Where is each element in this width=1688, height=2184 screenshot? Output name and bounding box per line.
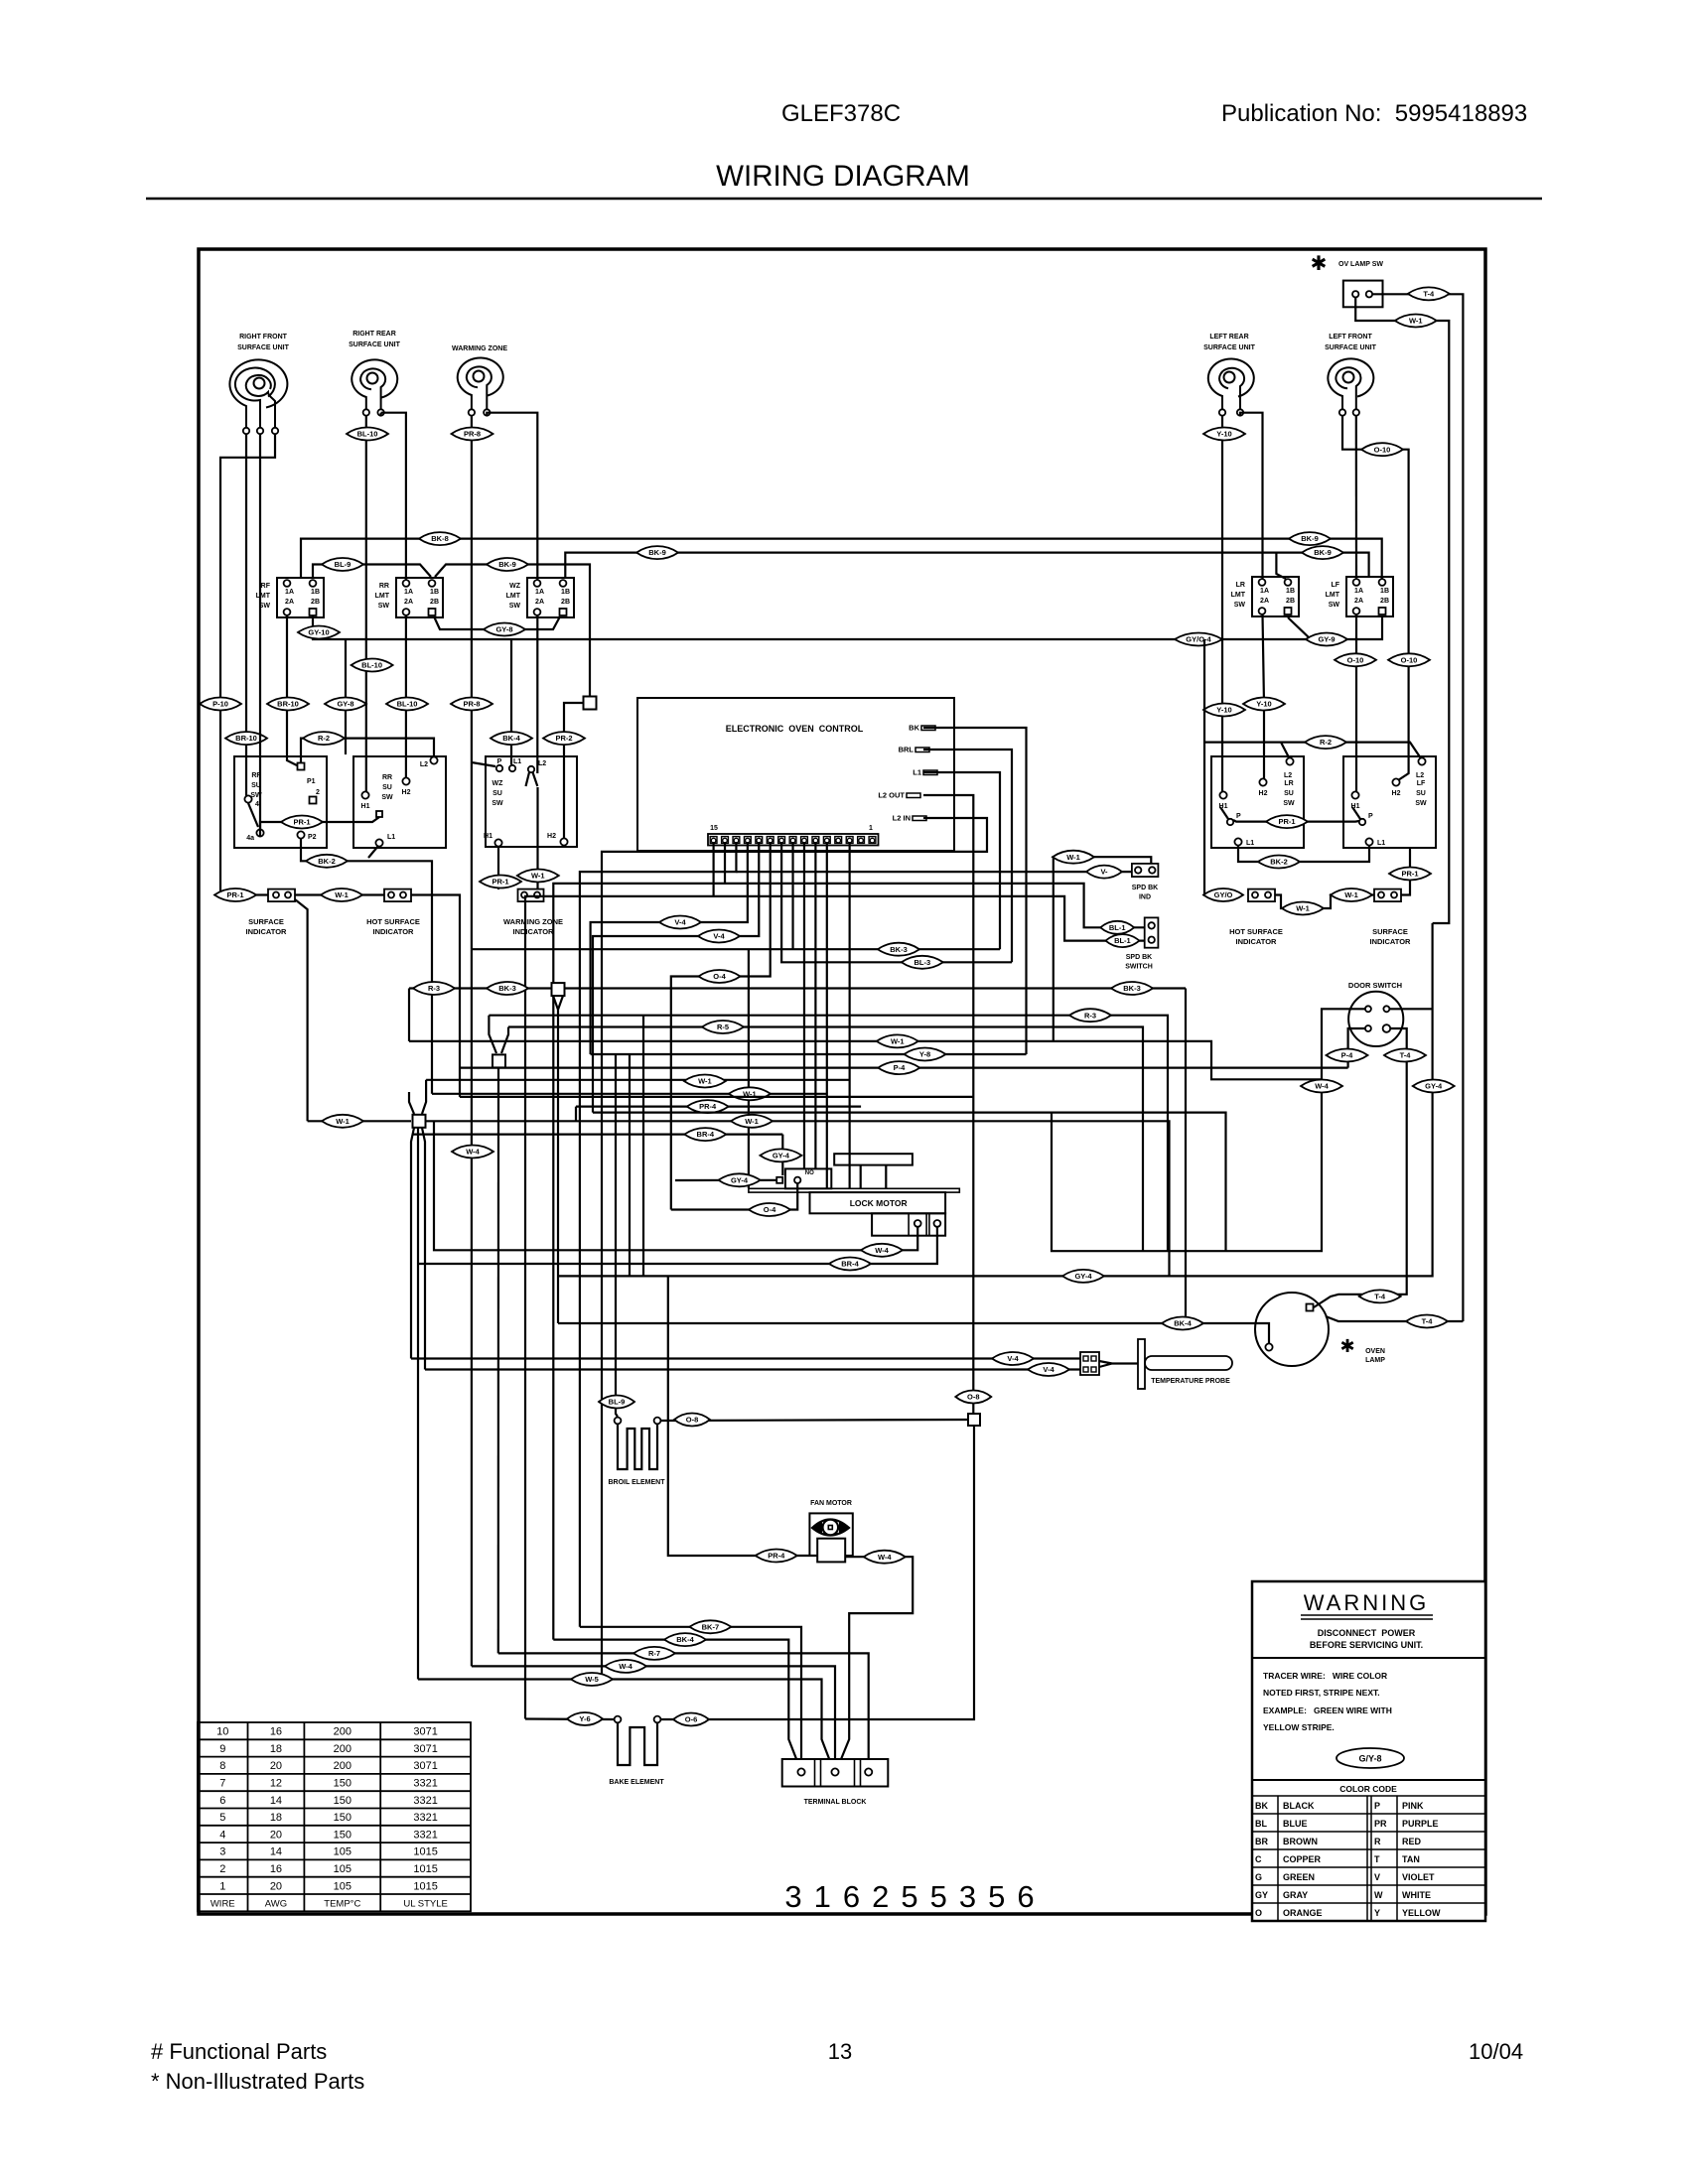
svg-text:BK-9: BK-9	[648, 548, 666, 557]
svg-text:HOT SURFACE: HOT SURFACE	[366, 917, 420, 926]
svg-text:BK-4: BK-4	[1174, 1319, 1192, 1328]
svg-text:W-4: W-4	[1315, 1082, 1329, 1091]
svg-text:GY-4: GY-4	[773, 1152, 790, 1160]
wire label BK-4 c	[1162, 1317, 1203, 1330]
svg-text:EXAMPLE: GREEN WIRE WITH: EXAMPLE: GREEN WIRE WITH	[1263, 1706, 1392, 1715]
wire V-1 to SPD BK IND	[736, 871, 1132, 873]
svg-text:2B: 2B	[1380, 598, 1389, 605]
wire label R-2 a	[303, 732, 345, 745]
svg-text:2A: 2A	[535, 599, 544, 606]
svg-text:1B: 1B	[1286, 588, 1295, 595]
wire trunk PR-1 right	[1233, 820, 1359, 822]
terminal LF H1	[1351, 791, 1358, 798]
svg-text:1A: 1A	[285, 589, 294, 596]
terminal RF LMT SW 2B	[310, 609, 317, 615]
svg-text:GY-10: GY-10	[308, 628, 329, 637]
wire label BK-9 c	[1289, 532, 1331, 545]
junction junction C	[492, 1054, 505, 1067]
wire EOC t7 fan	[803, 842, 805, 1168]
wire cam stem	[861, 1165, 887, 1189]
limit switch WZ LMT SW	[527, 578, 574, 617]
terminal door pin TL	[1365, 1006, 1371, 1012]
terminal NO contact square	[776, 1177, 782, 1183]
wire EOC L2 OUT wire	[923, 795, 973, 1414]
svg-text:L1: L1	[1377, 840, 1385, 847]
svg-text:BK-3: BK-3	[890, 945, 908, 954]
wire trunk BK-4 lamp	[558, 1323, 1269, 1343]
svg-text:LF: LF	[1417, 780, 1426, 787]
svg-text:NOTED FIRST, STRIPE NEXT.: NOTED FIRST, STRIPE NEXT.	[1263, 1688, 1380, 1698]
wire label GY-4 c	[1413, 1080, 1455, 1093]
svg-text:PR-1: PR-1	[1278, 817, 1295, 826]
wire label GY-10	[298, 626, 340, 639]
svg-text:1B: 1B	[561, 589, 570, 596]
svg-text:W-1: W-1	[1409, 317, 1423, 326]
wire R-5 into junction C	[501, 1027, 508, 1054]
svg-text:Y-10: Y-10	[1216, 430, 1231, 439]
svg-text:SW: SW	[1329, 602, 1340, 609]
wire trunk V-4 probe a	[411, 1357, 1080, 1359]
terminal oven lamp terminal b	[1265, 1343, 1272, 1350]
svg-text:BK-9: BK-9	[1314, 548, 1332, 557]
svg-text:4: 4	[255, 801, 259, 808]
wire LR coil left lead to H1	[1221, 415, 1223, 791]
terminal WZ L1	[509, 765, 515, 771]
svg-text:BR-10: BR-10	[277, 700, 299, 709]
terminal contact 4a	[256, 829, 263, 836]
wire label W-1 c	[517, 870, 559, 883]
wire LF coil right lead to LF 1A	[1355, 415, 1357, 579]
terminal conn2 pin2	[400, 892, 406, 898]
wire label BL-1 a	[1100, 921, 1134, 934]
wire label T-4 b	[1384, 1049, 1426, 1062]
terminal WZ LMT SW 1B	[560, 580, 567, 587]
svg-text:O-10: O-10	[1401, 655, 1418, 664]
svg-text:WARNING: WARNING	[1304, 1590, 1430, 1615]
svg-text:L2 IN: L2 IN	[893, 814, 911, 823]
header rule	[146, 198, 1542, 201]
terminal spdbkind pin2	[1149, 867, 1155, 873]
wire label R-3 a	[413, 982, 455, 995]
limit switch RF LMT SW	[277, 578, 324, 617]
wire EOC t3 fan	[849, 842, 851, 1188]
wire trunk BR-4 lock	[418, 1227, 937, 1264]
svg-text:200: 200	[334, 1726, 352, 1738]
svg-text:O-4: O-4	[713, 972, 726, 981]
wire label T-4 d	[1406, 1315, 1448, 1328]
svg-text:WIRING DIAGRAM: WIRING DIAGRAM	[716, 160, 970, 193]
wire trunk W-1 h	[426, 1079, 850, 1081]
wire WZ coil left lead down	[472, 415, 495, 949]
svg-text:18: 18	[270, 1743, 282, 1755]
wire label T-4 a	[1408, 287, 1450, 300]
svg-text:BL-10: BL-10	[361, 661, 382, 670]
wire trunk mid 1105	[460, 1096, 973, 1098]
svg-text:W-1: W-1	[745, 1117, 759, 1126]
terminal RR H1	[361, 791, 368, 798]
wire label BL-10 b	[352, 659, 393, 672]
terminal RR LMT SW 1A	[403, 580, 410, 587]
terminal WARMING ZONE terminal 1	[469, 409, 475, 415]
terminal broil terminal L	[615, 1418, 622, 1425]
svg-text:200: 200	[334, 1760, 352, 1772]
lock motor cam bar	[834, 1154, 913, 1164]
wire vertical GY/O-4 to indicator	[1204, 639, 1212, 895]
wire door BL wire	[1348, 1028, 1365, 1068]
svg-text:H2: H2	[547, 833, 556, 840]
terminal RR LMT SW 2B	[429, 609, 436, 615]
svg-text:SURFACE UNIT: SURFACE UNIT	[1203, 344, 1255, 351]
limit switch LR LMT SW	[1252, 577, 1299, 616]
svg-text:V-4: V-4	[713, 932, 725, 941]
terminal terminal block pin 2	[831, 1768, 838, 1775]
junction junction D	[413, 1115, 426, 1128]
svg-text:LMT: LMT	[256, 593, 271, 600]
svg-text:7: 7	[219, 1778, 225, 1790]
wire trunk BK-4 tb	[553, 1640, 800, 1769]
svg-text:AWG: AWG	[265, 1899, 287, 1910]
wire label W-1 g	[877, 1034, 918, 1047]
svg-text:PR-1: PR-1	[492, 878, 508, 887]
connector surface indicator right	[1374, 889, 1401, 902]
svg-text:PINK: PINK	[1402, 1801, 1424, 1811]
wire label O-8 a	[955, 1391, 991, 1404]
svg-text:SURFACE: SURFACE	[248, 917, 284, 926]
svg-text:W-4: W-4	[878, 1553, 892, 1562]
wire bundle v474 to W-4 trunk	[471, 949, 473, 1666]
wire trunk R-2 left	[301, 739, 434, 762]
svg-text:W-1: W-1	[698, 1077, 712, 1086]
svg-text:SU: SU	[1416, 790, 1426, 797]
warning box	[1252, 1581, 1485, 1921]
svg-text:SW: SW	[1234, 602, 1246, 609]
wire junction B drop	[553, 996, 563, 1323]
connector hot surface indicator right	[1248, 889, 1275, 902]
terminal terminal block pin 3	[865, 1768, 872, 1775]
terminal LEFT FRONT terminal 2	[1353, 409, 1359, 415]
wire door TR wire	[558, 923, 1433, 1276]
terminal block	[782, 1759, 889, 1787]
wire label GY-8 a	[484, 623, 525, 636]
svg-text:2A: 2A	[404, 599, 413, 606]
wire label O-4 b	[749, 1203, 790, 1216]
terminal RR LMT SW 1B	[429, 580, 436, 587]
svg-text:1: 1	[869, 825, 873, 832]
wire label PR-8 b	[451, 698, 492, 711]
svg-text:W-1: W-1	[336, 1117, 350, 1126]
wire label P-4 b	[1327, 1049, 1368, 1062]
svg-text:L2: L2	[1416, 772, 1424, 779]
svg-text:2B: 2B	[561, 599, 570, 606]
wire label GY-4 d	[1062, 1270, 1104, 1283]
svg-text:16: 16	[270, 1726, 282, 1738]
terminal terminal 2	[310, 797, 317, 804]
lock motor NO contact	[785, 1168, 831, 1188]
svg-text:* Non-Illustrated Parts: * Non-Illustrated Parts	[151, 2069, 364, 2094]
SPD BK IND connector	[1132, 864, 1159, 877]
svg-text:INDICATOR: INDICATOR	[1236, 937, 1278, 946]
svg-text:OV LAMP SW: OV LAMP SW	[1338, 261, 1383, 268]
wire PR-1 into connector	[220, 893, 268, 895]
svg-text:INDICATOR: INDICATOR	[373, 927, 415, 936]
svg-text:105: 105	[334, 1880, 352, 1892]
wire label BK-4 a	[491, 732, 532, 745]
wire label GY-9	[1306, 633, 1347, 646]
wire label BK-2 b	[1258, 856, 1300, 869]
wire label P-4 a	[878, 1061, 919, 1074]
wire label GY-8 b	[325, 698, 366, 711]
terminal P2	[297, 831, 304, 838]
wire trunk BR-4 mid	[413, 1135, 783, 1175]
surface unit coil WARMING ZONE	[458, 357, 503, 410]
indicator RF SU SW box	[234, 756, 327, 848]
wire label PR-2	[543, 732, 585, 745]
svg-text:PR-8: PR-8	[464, 430, 481, 439]
indicator RR SU SW box (hot surface)	[353, 756, 446, 848]
svg-text:W-1: W-1	[1066, 853, 1080, 862]
terminal LR LMT SW 2B	[1285, 608, 1292, 614]
terminal broil terminal R	[654, 1418, 661, 1425]
wire RF 2A to P1	[287, 615, 297, 765]
wire trunk Y-8	[591, 1053, 1027, 1055]
svg-text:BR: BR	[1255, 1837, 1268, 1846]
wire W-1 riser to WZ L2	[536, 787, 538, 889]
terminal contact 4	[244, 795, 251, 802]
svg-text:150: 150	[334, 1795, 352, 1807]
svg-text:BLUE: BLUE	[1283, 1819, 1308, 1829]
wire label V-4 a	[659, 916, 701, 929]
wire label BL-10 c	[386, 698, 428, 711]
terminal terminal block pin 1	[797, 1768, 804, 1775]
svg-text:1B: 1B	[430, 589, 439, 596]
svg-text:PR-2: PR-2	[555, 734, 572, 743]
svg-text:SPD BK: SPD BK	[1126, 954, 1152, 961]
svg-text:H1: H1	[484, 833, 492, 840]
svg-text:✱: ✱	[1311, 253, 1328, 275]
terminal RR LMT SW 2A	[403, 609, 410, 615]
svg-text:LEFT FRONT: LEFT FRONT	[1329, 334, 1372, 341]
wire bake left wire	[525, 1717, 614, 1720]
wire trunk PR-1 left	[260, 817, 379, 837]
svg-text:RF: RF	[251, 772, 261, 779]
wire label BL-3	[902, 956, 943, 969]
svg-text:INDICATOR: INDICATOR	[1370, 937, 1412, 946]
svg-text:BLACK: BLACK	[1283, 1801, 1315, 1811]
terminal RF terminal 1	[243, 428, 249, 434]
svg-text:LEFT REAR: LEFT REAR	[1209, 334, 1248, 341]
wire label W-4 e	[605, 1660, 646, 1673]
svg-text:LMT: LMT	[1326, 592, 1340, 599]
wire RF SU SW arm	[248, 803, 258, 827]
svg-text:RR: RR	[382, 774, 392, 781]
svg-text:P: P	[497, 758, 502, 765]
svg-text:Y-10: Y-10	[1256, 700, 1271, 709]
wire junction A to WZ H2	[564, 703, 583, 838]
wire trunk GY-4 to NO	[675, 1179, 776, 1181]
terminal oven lamp terminal a	[1307, 1304, 1314, 1311]
svg-text:2B: 2B	[1286, 598, 1295, 605]
wire junction D diagonals	[409, 1080, 426, 1680]
svg-text:BK: BK	[1255, 1801, 1268, 1811]
svg-text:PURPLE: PURPLE	[1402, 1819, 1439, 1829]
svg-text:V-4: V-4	[674, 918, 686, 927]
wire label BK-7	[689, 1620, 731, 1633]
svg-text:L1: L1	[513, 758, 521, 765]
wire R-3b into junction C	[489, 1016, 496, 1053]
wire label BK-3 c	[878, 943, 919, 956]
svg-text:WZ: WZ	[492, 780, 504, 787]
wire WZ coil right lead to WZ 1A	[487, 413, 537, 580]
svg-text:Y-10: Y-10	[1216, 706, 1231, 715]
svg-text:2B: 2B	[311, 599, 320, 606]
terminal WZ LMT SW 2A	[534, 609, 541, 615]
svg-text:GY: GY	[1255, 1890, 1268, 1900]
wire label BK-3 a	[487, 982, 528, 995]
svg-text:NO: NO	[805, 1170, 814, 1176]
terminal LR LMT SW 2A	[1259, 608, 1266, 614]
EOC terminal 6	[812, 837, 819, 844]
svg-text:1B: 1B	[311, 589, 320, 596]
wire WZ 2A drop	[536, 615, 538, 773]
svg-text:W-5: W-5	[585, 1675, 599, 1684]
surface unit coil RIGHT FRONT	[229, 359, 287, 429]
svg-text:2A: 2A	[1260, 598, 1269, 605]
svg-text:1015: 1015	[413, 1880, 437, 1892]
svg-text:WZ: WZ	[509, 583, 521, 590]
svg-text:SU: SU	[382, 784, 392, 791]
svg-text:GY-4: GY-4	[731, 1175, 749, 1184]
wire trunk BK-8	[301, 539, 1382, 579]
wire trunk BK-9	[565, 553, 1368, 579]
wire label BR-10 b	[225, 732, 267, 745]
svg-text:12: 12	[270, 1778, 282, 1790]
terminal LF H2	[1392, 778, 1399, 785]
svg-text:WHITE: WHITE	[1402, 1890, 1431, 1900]
svg-text:SW: SW	[492, 800, 503, 807]
limit switch LF LMT SW	[1346, 577, 1393, 616]
svg-text:R-2: R-2	[318, 734, 330, 743]
wire conn5 to PR-1 riser	[1401, 848, 1410, 895]
svg-text:G/Y-8: G/Y-8	[1358, 1754, 1381, 1764]
wire trunk W-1 to door TL	[409, 989, 1322, 1080]
terminal RF terminal 2	[257, 428, 263, 434]
wire link RR 2B to WZ 2B GY-8	[434, 616, 560, 629]
svg-text:3071: 3071	[413, 1743, 437, 1755]
wire label BR-4 b	[829, 1258, 871, 1271]
terminal LEFT REAR terminal 2	[1237, 409, 1243, 415]
svg-text:W-4: W-4	[466, 1148, 480, 1157]
svg-text:3321: 3321	[413, 1812, 437, 1824]
main border	[199, 249, 1485, 1914]
terminal LF LMT SW 1A	[1353, 579, 1360, 586]
connector surface indicator	[268, 889, 295, 902]
svg-text:4: 4	[219, 1829, 225, 1841]
SPD BK SWITCH connector	[1145, 917, 1159, 947]
wire label V-1	[1086, 866, 1122, 879]
wire label PR-8 a	[452, 428, 493, 441]
terminal LR LMT SW 1A	[1259, 579, 1266, 586]
wire label GY/O-4	[1175, 633, 1222, 646]
terminal OV LAMP SW pin 1	[1352, 291, 1358, 297]
svg-text:UL STYLE: UL STYLE	[403, 1899, 448, 1910]
svg-text:BL-1: BL-1	[1109, 923, 1126, 932]
wire label BK-8	[419, 532, 461, 545]
svg-text:GREEN: GREEN	[1283, 1872, 1315, 1882]
terminal LR P	[1227, 819, 1233, 825]
wire RR 2A to H2	[405, 615, 407, 777]
wire label V-4 c	[992, 1352, 1034, 1365]
wire junction C drop	[497, 1068, 499, 1653]
svg-text:BK-8: BK-8	[431, 534, 449, 543]
wire label PR-4 b	[756, 1550, 797, 1563]
wire label W-1 h	[684, 1075, 726, 1088]
svg-text:W-1: W-1	[1296, 904, 1310, 913]
svg-text:20: 20	[270, 1760, 282, 1772]
surface unit coil LEFT FRONT	[1328, 358, 1373, 410]
wire connector diag down	[295, 899, 308, 1121]
svg-text:150: 150	[334, 1778, 352, 1790]
EOC terminal 7	[801, 837, 808, 844]
EOC terminal 10	[767, 837, 774, 844]
wire EOC t5 fan	[826, 842, 828, 1188]
svg-text:GLEF378C: GLEF378C	[781, 100, 901, 127]
wire label W-4 a	[861, 1244, 903, 1257]
svg-text:1B: 1B	[1380, 588, 1389, 595]
svg-text:PR-1: PR-1	[1401, 870, 1418, 879]
wire label W-1 j	[322, 1115, 363, 1128]
svg-text:Y-6: Y-6	[579, 1714, 590, 1723]
wire OV LAMP SW to T-4	[1372, 294, 1463, 1321]
terminal LF LMT SW 2A	[1353, 608, 1360, 614]
terminal LF P	[1359, 819, 1365, 825]
svg-text:3321: 3321	[413, 1795, 437, 1807]
svg-text:2A: 2A	[285, 599, 294, 606]
wire label BK-9 a	[636, 546, 678, 559]
wire trunk BK-2 left	[301, 839, 432, 1094]
svg-text:5: 5	[219, 1812, 225, 1824]
svg-text:COPPER: COPPER	[1283, 1854, 1322, 1864]
svg-text:2: 2	[316, 789, 320, 796]
svg-text:RR: RR	[379, 583, 389, 590]
svg-text:FAN MOTOR: FAN MOTOR	[810, 1500, 852, 1507]
wire label O-10 a	[1361, 443, 1403, 456]
wire label W-1 e	[1282, 902, 1324, 915]
svg-text:316255356: 316255356	[784, 1879, 1046, 1914]
wire trunk PR-4 fan	[668, 1276, 817, 1556]
wire bundle vertical x634	[629, 1054, 631, 1276]
svg-text:L2: L2	[1284, 772, 1292, 779]
svg-text:T-4: T-4	[1422, 1317, 1434, 1326]
wire label BR-4 a	[684, 1128, 726, 1141]
svg-text:R-2: R-2	[1320, 738, 1332, 747]
svg-text:8: 8	[219, 1760, 225, 1772]
wire label PR-1 a	[281, 816, 323, 829]
wire label W-4 d	[864, 1551, 906, 1564]
wire label W-1 k	[731, 1115, 773, 1128]
svg-text:1015: 1015	[413, 1846, 437, 1858]
wire label PR-4 a	[687, 1100, 729, 1113]
electronic oven control box	[637, 698, 954, 851]
terminal door pin BR	[1383, 1024, 1391, 1032]
svg-text:1A: 1A	[404, 589, 413, 596]
EOC terminal strip	[708, 834, 879, 846]
svg-text:BK-9: BK-9	[498, 560, 516, 569]
wire label BK-9 b	[487, 558, 528, 571]
terminal WZ LMT SW 1A	[534, 580, 541, 587]
example wire label G/Y-8	[1336, 1748, 1404, 1768]
wire label W-1 f	[1053, 851, 1094, 864]
svg-text:105: 105	[334, 1863, 352, 1875]
